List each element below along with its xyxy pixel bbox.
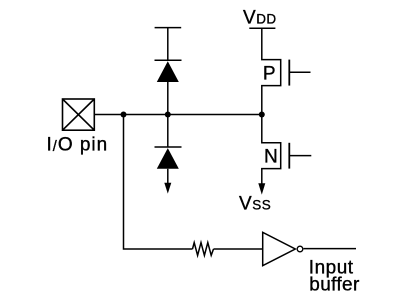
I/O pin pad (box with X) bbox=[63, 99, 95, 130]
PMOS gate bar bbox=[288, 60, 290, 86]
NMOS gate bar bbox=[288, 143, 290, 169]
PMOS gate wire bbox=[289, 71, 310, 73]
NMOS Q2 body: drain from node C, channel box (open left), source down bbox=[262, 115, 281, 185]
wire: node A down then right to resistor R1 bbox=[124, 115, 193, 250]
svg-text:buffer: buffer bbox=[309, 274, 360, 295]
PMOS Q1 body: source feed, channel box (open left), drain to node C bbox=[262, 28, 281, 114]
VDD terminal bar above diode D1 bbox=[155, 27, 182, 29]
down arrowhead: NMOS source to VSS bbox=[258, 183, 265, 194]
label "Input buffer" (2 lines) bbox=[309, 257, 360, 295]
diode D2 (VSS to pad): cathode bar + triangle bbox=[155, 147, 182, 169]
inverter output bubble bbox=[297, 246, 303, 252]
wire: resistor R1 to inverter input bbox=[214, 248, 263, 250]
inverter U1 triangle (input buffer) bbox=[263, 232, 296, 265]
svg-text:VDD: VDD bbox=[243, 7, 277, 28]
wire: node B down to diode D2 cathode bbox=[167, 115, 169, 148]
NMOS gate wire bbox=[289, 155, 311, 157]
svg-text:VSS: VSS bbox=[239, 193, 271, 214]
junction dot node B (diode column) bbox=[165, 112, 171, 118]
svg-text:P: P bbox=[263, 64, 276, 85]
junction dot node C (transistor column) bbox=[259, 112, 265, 118]
junction dot node A (left branch to input buffer) bbox=[121, 112, 127, 118]
wire: VDD bar down to diode D1 cathode bbox=[167, 28, 169, 61]
wire: D1 anode down to node B bbox=[167, 82, 169, 115]
svg-text:I/O pin: I/O pin bbox=[47, 135, 109, 156]
diode D1 (pad to VDD): cathode bar + triangle bbox=[155, 60, 182, 82]
resistor R1 (zigzag) bbox=[193, 243, 214, 256]
VDD rail bar bbox=[249, 27, 275, 29]
svg-text:N: N bbox=[264, 146, 278, 167]
wire: inverter output to right bbox=[303, 248, 356, 250]
wire + down arrowhead: D2 anode to substrate bbox=[164, 169, 171, 194]
wire: pad to transistor column (horizontal net) bbox=[94, 114, 261, 116]
